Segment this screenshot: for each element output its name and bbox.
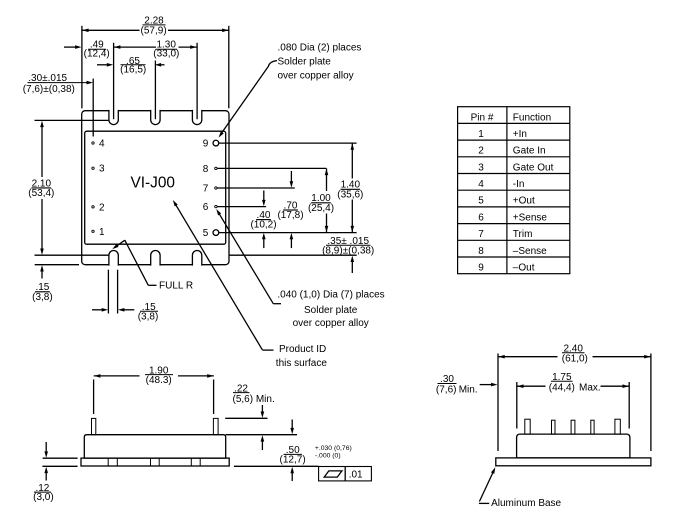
svg-text:Trim: Trim bbox=[513, 229, 533, 240]
svg-text:Solder plate: Solder plate bbox=[278, 56, 332, 67]
svg-text:(48.3): (48.3) bbox=[146, 375, 172, 386]
svg-text:(3,8): (3,8) bbox=[32, 292, 53, 303]
seating plane line (right) bbox=[234, 465, 319, 467]
dimension .22 (5,6) Min pin length bbox=[225, 417, 267, 419]
top mounting slot 3 bbox=[192, 110, 201, 125]
pin 6 (top view) bbox=[215, 205, 217, 207]
top view: module face (label surface) bbox=[85, 131, 226, 244]
svg-text:9: 9 bbox=[203, 139, 209, 150]
side view A: standoff gap 1 bbox=[107, 458, 109, 466]
side view B: pin 4 bbox=[591, 420, 594, 434]
svg-text:(8,9)±(0,38): (8,9)±(0,38) bbox=[322, 245, 374, 256]
svg-text:2: 2 bbox=[478, 146, 484, 157]
side view A: module body bbox=[84, 435, 225, 458]
svg-text:(44,4): (44,4) bbox=[549, 383, 575, 394]
side view B: pin 1 bbox=[525, 419, 530, 434]
pin function table bbox=[458, 107, 570, 274]
svg-text:7: 7 bbox=[203, 184, 209, 195]
right edge extension line bbox=[228, 26, 230, 109]
svg-text:8: 8 bbox=[203, 164, 209, 175]
svg-text:(5,6) Min.: (5,6) Min. bbox=[233, 394, 275, 405]
dimension .49 (12,4) bbox=[64, 46, 76, 48]
svg-text:this surface: this surface bbox=[276, 358, 328, 369]
base top extension (left) bbox=[43, 457, 78, 459]
svg-text:+.030 (0,76): +.030 (0,76) bbox=[315, 445, 352, 452]
pin 9 solder-plated hole (top view) bbox=[213, 140, 219, 146]
slot 1 centerline extension bbox=[113, 43, 115, 119]
svg-text:(25,4): (25,4) bbox=[308, 203, 334, 214]
svg-text:Min.: Min. bbox=[459, 384, 478, 395]
svg-text:3: 3 bbox=[478, 162, 484, 173]
pin 9 leader line bbox=[219, 142, 356, 144]
svg-text:over copper alloy: over copper alloy bbox=[293, 318, 369, 329]
svg-text:.080 Dia (2) places: .080 Dia (2) places bbox=[278, 42, 362, 53]
svg-text:5: 5 bbox=[478, 196, 484, 207]
svg-text:(7,6)±(0,38): (7,6)±(0,38) bbox=[23, 84, 75, 95]
svg-text:(12,7): (12,7) bbox=[280, 454, 306, 465]
svg-text:(3,0): (3,0) bbox=[33, 492, 54, 503]
slot 3 centerline extension bbox=[196, 43, 198, 119]
standoff reference line (right) bbox=[229, 254, 357, 256]
svg-text:6: 6 bbox=[203, 202, 209, 213]
svg-text:+In: +In bbox=[513, 129, 527, 140]
svg-text:2: 2 bbox=[99, 202, 105, 213]
pin 4 extension line bbox=[92, 79, 94, 137]
svg-text:5: 5 bbox=[203, 228, 209, 239]
svg-text:VI-J00: VI-J00 bbox=[130, 174, 174, 191]
svg-text:1: 1 bbox=[99, 227, 105, 238]
dimension 1.90 (48,3) bbox=[94, 375, 140, 377]
left edge extension line bbox=[81, 26, 83, 109]
dimension 1.40 (35,6) bbox=[351, 143, 353, 178]
svg-text:–Sense: –Sense bbox=[513, 246, 547, 257]
standoff reference line (left) bbox=[35, 254, 109, 256]
svg-text:(7,6): (7,6) bbox=[436, 384, 457, 395]
side view A: pin 9 bbox=[213, 418, 218, 434]
pin 2 (top view) bbox=[92, 206, 94, 208]
svg-text:Gate Out: Gate Out bbox=[513, 162, 554, 173]
svg-text:Function: Function bbox=[513, 112, 551, 123]
svg-text:+Sense: +Sense bbox=[513, 212, 548, 223]
note .040 Dia (7) places leader bbox=[218, 211, 274, 304]
pin 7 (top view) bbox=[215, 187, 217, 189]
top view: module package outline bbox=[82, 111, 229, 265]
svg-text:7: 7 bbox=[478, 229, 484, 240]
svg-text:Gate In: Gate In bbox=[513, 146, 546, 157]
svg-text:.01: .01 bbox=[349, 469, 363, 480]
svg-text:9: 9 bbox=[478, 263, 484, 274]
side view B: pin 3 bbox=[571, 420, 575, 434]
svg-text:–Out: –Out bbox=[513, 263, 535, 274]
dimension .15 (3,8) slot width bbox=[107, 270, 109, 314]
svg-text:(33,0): (33,0) bbox=[153, 49, 179, 60]
dimension .65 (16,5) bbox=[97, 64, 108, 66]
svg-text:+Out: +Out bbox=[513, 196, 535, 207]
package bottom edge extension (left) bbox=[35, 264, 79, 266]
bottom mounting slot 1 bbox=[109, 251, 118, 266]
dimension .70 (17,8) bbox=[290, 171, 292, 182]
note .080 Dia (2) places leader bbox=[221, 61, 277, 135]
body top extension line bbox=[226, 434, 297, 436]
svg-text:Solder plate: Solder plate bbox=[304, 305, 358, 316]
svg-text:(3,8): (3,8) bbox=[138, 312, 159, 323]
svg-text:(12,4): (12,4) bbox=[84, 49, 110, 60]
svg-text:8: 8 bbox=[478, 246, 484, 257]
dimension .50 (12,7) height bbox=[291, 420, 293, 429]
dimension 2.28 (57,9) bbox=[82, 29, 140, 31]
side view A: standoff gap 2 bbox=[150, 458, 152, 466]
svg-text:-.000 (0): -.000 (0) bbox=[315, 453, 341, 460]
pin 7 leader line bbox=[217, 187, 294, 189]
dimension 2.40 (61,0) bbox=[498, 356, 558, 358]
dimension 2.10 (53,4) extension line top bbox=[35, 119, 109, 121]
pin 8 leader line bbox=[217, 167, 326, 169]
note FULL R leader bbox=[148, 284, 156, 286]
svg-text:6: 6 bbox=[478, 212, 484, 223]
flatness feature control frame bbox=[319, 467, 372, 481]
dimension 1.00 (25,4) bbox=[326, 168, 328, 191]
side view B: pin 2 bbox=[552, 420, 556, 434]
side view B: pin 5 bbox=[615, 419, 620, 434]
pin 5 leader line bbox=[219, 232, 356, 234]
svg-text:(57,9): (57,9) bbox=[141, 25, 167, 36]
svg-text:4: 4 bbox=[478, 179, 484, 190]
top mounting slot 2 bbox=[151, 110, 160, 125]
dimension 1.75 (44,4) Max bbox=[517, 385, 546, 387]
pin 5 solder-plated hole (top view) bbox=[213, 230, 219, 236]
side view B: module body bbox=[517, 434, 630, 458]
note Product ID leader bbox=[174, 202, 262, 350]
dimension .12 (3,0) flange thickness bbox=[45, 442, 47, 452]
dimension 2.10 (53,4) bbox=[41, 127, 43, 177]
side view A: base flange bbox=[81, 458, 229, 466]
svg-text:-In: -In bbox=[513, 179, 525, 190]
note Aluminum Base leader bbox=[479, 502, 489, 504]
pin 3 (top view) bbox=[92, 167, 94, 169]
side view A: standoff gap 3 bbox=[190, 458, 192, 466]
svg-text:FULL R: FULL R bbox=[159, 281, 193, 292]
svg-text:.040 (1,0) Dia (7) places: .040 (1,0) Dia (7) places bbox=[277, 290, 384, 301]
pin 1 (top view) bbox=[92, 230, 94, 232]
svg-text:Product ID: Product ID bbox=[279, 344, 326, 355]
svg-text:Pin #: Pin # bbox=[471, 112, 494, 123]
dimension .40 (10,2) bbox=[263, 191, 265, 202]
svg-text:1: 1 bbox=[478, 129, 484, 140]
side view A: pin 1 bbox=[92, 418, 96, 434]
svg-text:(35,6): (35,6) bbox=[337, 189, 363, 200]
side view B: aluminum base plate bbox=[496, 458, 651, 466]
svg-text:3: 3 bbox=[99, 164, 105, 175]
pin 4 (top view) bbox=[92, 142, 94, 144]
seating plane line (left) bbox=[42, 465, 77, 467]
dimension .15 (3,8) standoff height bbox=[41, 272, 43, 279]
svg-text:(61,0): (61,0) bbox=[562, 354, 588, 365]
bottom mounting slot 3 bbox=[192, 251, 201, 266]
top mounting slot 1 bbox=[109, 110, 118, 125]
svg-text:Aluminum Base: Aluminum Base bbox=[491, 498, 561, 509]
slot 2 centerline extension bbox=[154, 61, 156, 120]
pin 8 (top view) bbox=[215, 167, 217, 169]
svg-text:over copper alloy: over copper alloy bbox=[278, 70, 354, 81]
svg-text:Max.: Max. bbox=[579, 383, 601, 394]
svg-text:(16,5): (16,5) bbox=[120, 64, 146, 75]
svg-text:(53,4): (53,4) bbox=[28, 188, 54, 199]
bottom mounting slot 2 bbox=[151, 251, 160, 266]
dimension 1.30 (33,0) bbox=[114, 46, 156, 48]
svg-text:(10,2): (10,2) bbox=[250, 220, 276, 231]
pin 6 leader line bbox=[217, 206, 266, 208]
svg-text:(17,8): (17,8) bbox=[277, 210, 303, 221]
svg-text:4: 4 bbox=[99, 139, 105, 150]
